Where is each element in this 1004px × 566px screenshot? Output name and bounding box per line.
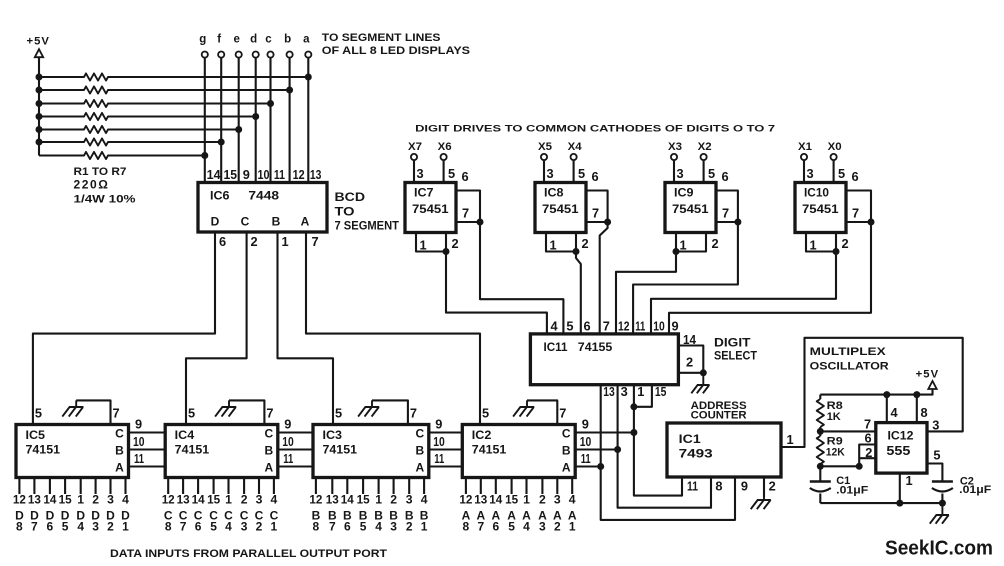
svg-text:3: 3 — [554, 493, 561, 507]
wire IC7 pins 1-2 strap — [416, 233, 446, 252]
svg-text:4: 4 — [523, 520, 530, 534]
svg-text:2: 2 — [712, 236, 719, 251]
svg-text:74151: 74151 — [175, 443, 210, 457]
junction segment e — [235, 126, 242, 133]
svg-text:13: 13 — [603, 384, 615, 399]
svg-text:9: 9 — [582, 417, 589, 432]
pins IC2 data inputs — [466, 478, 572, 495]
resistor R7 — [39, 152, 205, 159]
svg-text:7493: 7493 — [679, 447, 713, 461]
svg-text:DATA INPUTS FROM PARALLEL OUTP: DATA INPUTS FROM PARALLEL OUTPUT PORT — [110, 548, 387, 560]
svg-text:6: 6 — [462, 169, 469, 184]
svg-text:IC8: IC8 — [544, 186, 564, 200]
svg-text:7: 7 — [329, 520, 336, 534]
svg-text:13: 13 — [177, 493, 190, 507]
svg-text:X5: X5 — [538, 141, 552, 153]
svg-text:1: 1 — [375, 493, 382, 507]
resistor R8 1K — [819, 395, 821, 399]
resistor R2 — [39, 86, 290, 93]
svg-text:C: C — [241, 215, 250, 229]
svg-text:5: 5 — [578, 166, 585, 181]
svg-text:B: B — [415, 444, 424, 458]
svg-text:9: 9 — [284, 417, 291, 432]
svg-text:SeekIC.com: SeekIC.com — [885, 537, 993, 560]
svg-text:7: 7 — [559, 406, 566, 421]
svg-text:7: 7 — [603, 319, 610, 334]
wire IC6 B output to IC3 pin5 — [278, 232, 334, 425]
capacitor C2 .01uF — [932, 480, 953, 482]
svg-text:.01μF: .01μF — [836, 485, 868, 497]
svg-text:C: C — [115, 427, 124, 441]
svg-text:10: 10 — [133, 434, 145, 449]
svg-text:g: g — [199, 34, 206, 46]
wire IC10 pin2 to IC11 pin10 — [651, 252, 836, 334]
svg-text:13: 13 — [474, 493, 487, 507]
svg-text:A: A — [115, 461, 124, 475]
svg-text:IC6: IC6 — [210, 189, 230, 203]
wire IC8 pin2 to IC11 pin6 — [576, 252, 581, 334]
svg-text:1: 1 — [637, 384, 644, 399]
svg-text:14: 14 — [207, 167, 222, 182]
svg-text:8: 8 — [16, 520, 23, 534]
junction rail-R6 — [36, 139, 43, 146]
wire IC12 pin6 pin2 strap — [820, 445, 876, 467]
svg-text:DIGIT: DIGIT — [714, 337, 751, 350]
resistor R6 — [39, 138, 221, 145]
svg-text:5: 5 — [188, 406, 195, 421]
svg-text:B: B — [115, 444, 124, 458]
svg-text:13: 13 — [28, 493, 41, 507]
svg-text:7: 7 — [31, 520, 38, 534]
svg-text:2: 2 — [842, 236, 849, 251]
wire IC10 pin6 — [846, 191, 871, 223]
driver IC7 75451 box — [405, 183, 456, 233]
svg-text:6: 6 — [722, 169, 729, 184]
mux IC4 74151 strobe ground — [229, 400, 264, 424]
svg-text:.01μF: .01μF — [959, 484, 991, 496]
svg-text:7: 7 — [477, 520, 484, 534]
svg-text:IC11: IC11 — [544, 340, 568, 354]
svg-text:+5V: +5V — [27, 36, 51, 48]
svg-text:75451: 75451 — [672, 202, 709, 216]
svg-text:4: 4 — [375, 520, 382, 534]
svg-text:1: 1 — [282, 234, 289, 249]
wire IC10 pins 1-2 strap — [806, 233, 836, 252]
junction IC9 pin1 — [673, 248, 680, 255]
svg-text:12: 12 — [618, 319, 630, 334]
svg-text:IC9: IC9 — [674, 186, 694, 200]
svg-text:13: 13 — [310, 167, 322, 182]
svg-text:2: 2 — [256, 520, 263, 534]
svg-text:15: 15 — [655, 384, 667, 399]
timer IC12 555 box — [876, 423, 927, 474]
op IC6 7448 BCD decoder box — [198, 183, 327, 233]
wire IC10 pin7 to IC11 pin9 — [669, 222, 871, 334]
svg-text:2: 2 — [92, 493, 99, 507]
svg-text:5: 5 — [933, 448, 940, 463]
svg-text:3: 3 — [107, 493, 114, 507]
svg-text:4: 4 — [421, 493, 428, 507]
wire IC7 pin7 to IC11 pin5 — [480, 222, 563, 334]
svg-text:1: 1 — [122, 520, 129, 534]
wire IC11 pin3 to IC1 pin8 and B bus — [618, 385, 711, 508]
svg-text:3: 3 — [932, 418, 939, 433]
svg-text:6: 6 — [852, 169, 859, 184]
svg-text:2: 2 — [452, 236, 459, 251]
junction segment g — [201, 152, 208, 159]
svg-text:3: 3 — [807, 166, 814, 181]
svg-text:9: 9 — [435, 417, 442, 432]
svg-text:3: 3 — [92, 520, 99, 534]
svg-text:B: B — [562, 444, 571, 458]
junction pin4 rail — [883, 391, 890, 398]
svg-text:11: 11 — [274, 167, 285, 182]
mux IC5 74151 box — [16, 425, 129, 478]
svg-text:15: 15 — [207, 493, 220, 507]
svg-text:5: 5 — [482, 406, 489, 421]
wire B bus — [129, 448, 618, 450]
mux IC2 74151 box — [462, 425, 575, 478]
svg-text:7: 7 — [722, 206, 729, 221]
svg-text:1: 1 — [810, 238, 817, 253]
svg-text:4: 4 — [569, 493, 576, 507]
svg-text:10: 10 — [282, 434, 294, 449]
junction IC7 pin2 — [443, 248, 450, 255]
svg-text:1: 1 — [523, 493, 530, 507]
svg-text:5: 5 — [360, 520, 367, 534]
svg-text:2: 2 — [554, 520, 561, 534]
svg-text:OF ALL 8 LED DISPLAYS: OF ALL 8 LED DISPLAYS — [322, 45, 470, 57]
wire oscillator ground bus — [820, 502, 942, 504]
svg-text:a: a — [303, 34, 310, 46]
junction IC11 pin2-pin14 — [700, 369, 707, 376]
svg-text:8: 8 — [715, 479, 722, 494]
svg-text:3: 3 — [390, 520, 397, 534]
wire IC9 pin6 — [716, 191, 738, 223]
svg-text:3: 3 — [256, 493, 263, 507]
junction rail-R5 — [36, 126, 43, 133]
svg-text:1: 1 — [421, 520, 428, 534]
svg-text:3: 3 — [621, 384, 628, 399]
junction IC9 pin6-pin7 — [734, 219, 741, 226]
svg-text:11: 11 — [434, 451, 444, 466]
svg-text:SELECT: SELECT — [714, 350, 757, 363]
svg-text:OSCILLATOR: OSCILLATOR — [810, 361, 889, 373]
junction pin8 rail — [913, 391, 920, 398]
svg-text:7: 7 — [266, 406, 273, 421]
svg-text:3: 3 — [547, 166, 554, 181]
svg-text:4: 4 — [551, 319, 559, 334]
svg-text:7: 7 — [112, 406, 119, 421]
svg-text:IC4: IC4 — [175, 428, 195, 442]
wire IC7 pin7 — [456, 221, 480, 223]
svg-text:8: 8 — [921, 405, 928, 420]
svg-text:7: 7 — [852, 206, 859, 221]
junction IC8 pin6-pin7 — [604, 219, 611, 226]
wire segment f to IC6 — [220, 58, 222, 183]
svg-text:2: 2 — [406, 520, 413, 534]
svg-text:IC3: IC3 — [323, 428, 343, 442]
svg-text:A: A — [562, 461, 571, 475]
svg-text:15: 15 — [224, 167, 238, 182]
svg-text:A: A — [301, 215, 310, 229]
svg-text:A: A — [415, 461, 424, 475]
svg-text:3: 3 — [241, 520, 248, 534]
wire IC7 pin2 to IC11 pin4 — [446, 252, 547, 334]
ground oscillator — [930, 503, 949, 524]
svg-text:IC10: IC10 — [804, 186, 829, 200]
wire IC9 pin1 to IC11 pin12 — [616, 252, 676, 334]
svg-text:e: e — [233, 34, 239, 46]
junction segment b — [286, 87, 293, 94]
svg-text:1: 1 — [906, 473, 913, 488]
svg-text:5: 5 — [708, 166, 715, 181]
junction segment c — [267, 100, 274, 107]
wire segment c to IC6 — [269, 58, 271, 183]
svg-text:TO: TO — [335, 205, 355, 219]
wire IC10 pin7 — [846, 221, 871, 223]
svg-text:4: 4 — [122, 493, 129, 507]
svg-text:1: 1 — [569, 520, 576, 534]
driver IC8 75451 box — [535, 183, 586, 233]
junction IC7 pin6-pin7 — [477, 219, 484, 226]
svg-text:7: 7 — [312, 234, 319, 249]
wire IC11 pin14 — [678, 346, 703, 373]
svg-text:5: 5 — [566, 319, 573, 334]
svg-text:14: 14 — [683, 332, 697, 347]
resistor R5 — [39, 126, 239, 133]
svg-text:X4: X4 — [568, 141, 582, 153]
wire segment d to IC6 — [255, 58, 257, 183]
pins IC5 data inputs — [19, 478, 125, 495]
svg-text:5: 5 — [508, 520, 515, 534]
wire segment e to IC6 — [238, 58, 240, 183]
mux IC4 74151 box — [165, 425, 278, 478]
svg-text:4: 4 — [271, 493, 278, 507]
junction IC8 pin2 — [573, 248, 580, 255]
wire +5V rail — [38, 57, 40, 155]
svg-text:2: 2 — [769, 479, 776, 494]
junction segment f — [218, 139, 225, 146]
svg-text:11: 11 — [687, 479, 698, 494]
junction IC10 pin2 — [833, 248, 840, 255]
junction segment a — [305, 74, 312, 81]
svg-text:12: 12 — [162, 493, 175, 507]
svg-text:3: 3 — [677, 166, 684, 181]
svg-text:74151: 74151 — [472, 443, 507, 457]
svg-text:10: 10 — [258, 167, 270, 182]
svg-text:2: 2 — [251, 234, 258, 249]
wire segment b to IC6 — [289, 58, 291, 183]
wire A bus — [129, 465, 601, 467]
svg-text:X3: X3 — [668, 141, 682, 153]
svg-text:6: 6 — [492, 520, 499, 534]
wire IC8 pin6 — [586, 191, 608, 223]
svg-text:D: D — [211, 215, 220, 229]
wire IC11 pin13 to IC1 pin9 and A bus — [601, 385, 735, 520]
wire IC8 pin7 — [586, 221, 608, 223]
wire IC12 pin8 riser — [916, 395, 918, 423]
svg-text:COUNTER: COUNTER — [691, 410, 747, 422]
svg-text:5: 5 — [448, 166, 455, 181]
svg-text:1: 1 — [787, 432, 794, 447]
svg-text:5: 5 — [210, 520, 217, 534]
svg-text:11: 11 — [134, 451, 144, 466]
svg-text:11: 11 — [283, 451, 293, 466]
junction rail-R1 — [36, 74, 43, 81]
svg-text:75451: 75451 — [412, 202, 449, 216]
svg-text:1: 1 — [225, 493, 232, 507]
svg-text:2: 2 — [686, 355, 693, 370]
pins IC4 data inputs — [168, 478, 274, 495]
svg-text:15: 15 — [59, 493, 72, 507]
svg-text:12: 12 — [13, 493, 26, 507]
wire segment g to IC6 — [204, 58, 206, 183]
mux IC3 74151 strobe ground — [372, 400, 408, 424]
driver IC9 75451 box — [665, 183, 716, 233]
capacitor C1 .01uF — [819, 466, 821, 481]
junction IC10 pin6-pin7 — [868, 219, 875, 226]
svg-text:8: 8 — [165, 520, 172, 534]
junction pin2 strap — [856, 463, 863, 470]
svg-text:C: C — [562, 427, 571, 441]
svg-text:14: 14 — [489, 493, 502, 507]
svg-text:d: d — [250, 34, 257, 46]
mux IC3 74151 box — [313, 425, 429, 478]
svg-text:IC5: IC5 — [26, 428, 46, 442]
svg-text:6: 6 — [584, 319, 591, 334]
svg-text:IC12: IC12 — [888, 429, 914, 443]
junction C bus — [630, 429, 637, 436]
mux IC5 74151 strobe ground — [76, 400, 110, 424]
svg-text:1K: 1K — [827, 411, 842, 423]
resistor R9 12K — [819, 431, 821, 436]
wire IC11 pin2 — [678, 372, 703, 374]
svg-text:14: 14 — [43, 493, 56, 507]
driver IC10 75451 box — [795, 183, 846, 233]
svg-text:2: 2 — [865, 445, 872, 460]
svg-text:X0: X0 — [828, 141, 842, 153]
svg-text:R1 TO R7: R1 TO R7 — [74, 166, 127, 178]
wire IC12 pin5 to C2 — [927, 464, 942, 482]
ground IC1 pin2 — [763, 477, 765, 498]
junction segment d — [252, 113, 259, 120]
wire IC9 pin7 — [716, 221, 738, 223]
svg-text:9: 9 — [243, 167, 250, 182]
svg-text:5: 5 — [62, 520, 69, 534]
svg-text:10: 10 — [433, 434, 445, 449]
svg-text:1: 1 — [271, 520, 278, 534]
svg-text:74151: 74151 — [26, 443, 61, 457]
svg-text:15: 15 — [357, 493, 370, 507]
svg-text:9: 9 — [135, 417, 142, 432]
svg-text:15: 15 — [505, 493, 518, 507]
svg-text:6: 6 — [219, 234, 226, 249]
svg-text:5: 5 — [838, 166, 845, 181]
wire IC8 pins 1-2 strap — [546, 233, 576, 252]
junction rail-R3 — [36, 100, 43, 107]
svg-text:220Ω: 220Ω — [74, 180, 110, 192]
svg-text:6: 6 — [344, 520, 351, 534]
wire C bus — [129, 431, 634, 433]
svg-text:7: 7 — [462, 206, 469, 221]
svg-text:9: 9 — [741, 479, 748, 494]
svg-text:X1: X1 — [798, 141, 812, 153]
svg-text:9: 9 — [672, 319, 679, 334]
svg-text:14: 14 — [341, 493, 354, 507]
svg-text:14: 14 — [192, 493, 205, 507]
svg-text:11: 11 — [581, 451, 591, 466]
svg-text:13: 13 — [326, 493, 339, 507]
svg-text:C: C — [415, 427, 424, 441]
junction A bus — [597, 463, 604, 470]
svg-text:3: 3 — [406, 493, 413, 507]
demux IC11 74155 box — [530, 334, 678, 385]
svg-text:1: 1 — [680, 238, 687, 253]
junction rail-R2 — [36, 87, 43, 94]
svg-text:1: 1 — [550, 238, 557, 253]
svg-text:6: 6 — [592, 169, 599, 184]
svg-text:c: c — [265, 34, 272, 46]
wire IC9 pin7 to IC11 pin11 — [633, 222, 738, 334]
svg-text:2: 2 — [107, 520, 114, 534]
svg-text:2: 2 — [539, 493, 546, 507]
svg-text:6: 6 — [47, 520, 54, 534]
wire IC6 A output to IC2 pin5 — [306, 232, 480, 425]
resistor R4 — [39, 113, 256, 120]
junction IC12 pin1 ground — [896, 500, 903, 507]
svg-text:4: 4 — [891, 405, 899, 420]
wire IC12 pin4 riser — [886, 395, 888, 423]
wire +5V rail oscillator — [820, 389, 932, 395]
junction C2 ground — [939, 500, 946, 507]
svg-text:A: A — [264, 461, 273, 475]
svg-text:7: 7 — [864, 417, 871, 432]
svg-text:B: B — [272, 215, 281, 229]
junction IC11 pin1-pin15 — [630, 403, 637, 410]
svg-text:3: 3 — [417, 166, 424, 181]
svg-text:f: f — [217, 34, 221, 46]
svg-text:b: b — [284, 34, 291, 46]
svg-text:DIGIT DRIVES TO COMMON CATHODE: DIGIT DRIVES TO COMMON CATHODES OF DIGIT… — [415, 124, 775, 135]
svg-text:X6: X6 — [438, 141, 452, 153]
svg-text:5: 5 — [335, 406, 342, 421]
wire IC7 pin6 — [456, 191, 480, 223]
svg-text:555: 555 — [886, 443, 910, 458]
svg-text:8: 8 — [313, 520, 320, 534]
svg-text:IC2: IC2 — [472, 428, 492, 442]
svg-text:5: 5 — [35, 406, 42, 421]
svg-text:74151: 74151 — [323, 443, 358, 457]
svg-text:7448: 7448 — [248, 189, 279, 203]
svg-text:12: 12 — [459, 493, 472, 507]
wire IC1 pin1 to IC12 pin3 loop — [781, 338, 963, 447]
svg-text:1/4W 10%: 1/4W 10% — [74, 194, 137, 206]
svg-text:B: B — [264, 444, 273, 458]
wire IC6 C output to IC4 pin5 — [186, 232, 247, 425]
svg-text:1: 1 — [420, 238, 427, 253]
svg-text:MULTIPLEX: MULTIPLEX — [810, 346, 886, 358]
svg-text:6: 6 — [865, 431, 872, 446]
svg-text:12: 12 — [309, 493, 322, 507]
svg-text:12: 12 — [293, 167, 305, 182]
svg-text:X7: X7 — [408, 141, 422, 153]
svg-text:+5V: +5V — [916, 369, 940, 381]
svg-text:2: 2 — [390, 493, 397, 507]
svg-text:4: 4 — [77, 520, 84, 534]
svg-text:7: 7 — [410, 406, 417, 421]
svg-text:1: 1 — [77, 493, 84, 507]
